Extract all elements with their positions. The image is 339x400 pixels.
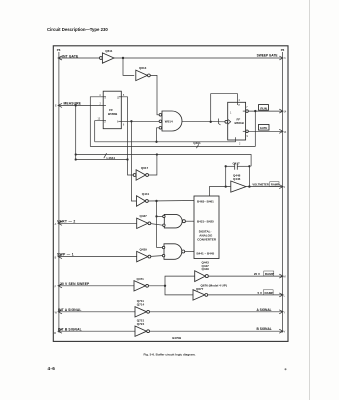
wire W514 bottom input to bus1	[157, 128, 160, 142]
svg-text:INT B SIGNAL: INT B SIGNAL	[58, 327, 82, 331]
svg-text:P6: P6	[281, 48, 285, 52]
gate W514	[159, 111, 182, 131]
junction RUN	[254, 110, 256, 112]
junction NAND A tap	[155, 215, 157, 217]
svg-text:4-6: 4-6	[48, 366, 56, 371]
FF2 output pin circles	[246, 110, 249, 113]
wire NAND A top input tap	[157, 215, 163, 217]
svg-text:Q439: Q439	[140, 248, 148, 252]
svg-text:Q446: Q446	[233, 177, 241, 181]
wire measure branch down	[75, 105, 77, 159]
inverter Q676 Q677	[193, 283, 227, 300]
inverter Q471	[134, 277, 149, 291]
wire B signal out	[150, 330, 283, 332]
amplifier Q448 Q446	[231, 174, 246, 193]
svg-text:B463– B461: B463– B461	[197, 199, 214, 203]
node SWP input	[55, 253, 137, 260]
wire Q437 to NAND A	[151, 224, 163, 226]
wire cap right down to amp output	[248, 166, 250, 186]
junction cap right	[248, 165, 250, 167]
junction clock node	[210, 121, 212, 123]
svg-text:RAMP: RAMP	[271, 183, 279, 187]
wire branch down to Q676	[165, 286, 193, 295]
svg-text:Q724: Q724	[137, 322, 145, 326]
svg-text:RAMP: RAMP	[265, 291, 274, 295]
flip-flop U1 FF B565B	[98, 91, 125, 129]
junction amp output	[248, 185, 250, 187]
svg-text:RUN: RUN	[260, 106, 267, 110]
inverter Q439	[137, 248, 151, 262]
gate NAND A	[163, 214, 186, 228]
svg-text:RAMP: RAMP	[265, 272, 274, 276]
wire FF1 pin4 to bus1	[90, 97, 103, 147]
node INT A SIGNAL input	[55, 308, 135, 315]
page right edge	[309, 0, 311, 400]
svg-text:P6: P6	[57, 48, 61, 52]
node SWEEP GATE output	[257, 54, 287, 61]
label box RUN	[259, 105, 269, 111]
svg-text:B565B: B565B	[108, 112, 118, 116]
node A SIGNAL	[257, 308, 286, 315]
svg-text:M: M	[54, 332, 56, 335]
node VOLTMETER RAMP	[252, 182, 285, 190]
wire bus1	[90, 146, 255, 148]
svg-text:CONVERTER: CONVERTER	[197, 237, 217, 241]
wire DAC output up to integrator input	[209, 187, 230, 196]
wire RUN output	[248, 110, 282, 112]
wire branch up to 20V inverter	[165, 276, 195, 286]
inverter Q617	[133, 166, 148, 180]
svg-text:Q714: Q714	[137, 302, 145, 306]
junction cap left	[225, 165, 227, 167]
wire A signal out	[150, 311, 283, 313]
inverter 20V ramp	[195, 271, 209, 282]
labels Q443 Q447 Q449	[202, 261, 210, 272]
svg-text:Q613: Q613	[139, 66, 147, 70]
svg-text:5 V: 5 V	[258, 291, 263, 295]
wire FF1 pin5 down to Q617	[121, 97, 133, 175]
label box GATE	[259, 125, 270, 131]
wire NAND column feed	[156, 201, 158, 248]
left connector pin line	[58, 52, 60, 333]
node 5 V RAMP	[258, 290, 286, 298]
wire NAND B out to DAC	[185, 251, 194, 253]
inverter Q437	[137, 214, 151, 228]
schematic frame	[53, 46, 288, 342]
wire bus2 to integrator	[76, 155, 251, 167]
svg-text:Q441: Q441	[142, 192, 150, 196]
junction branch	[164, 285, 166, 287]
wire Q471 out to branch	[149, 285, 166, 287]
wire clock loop to FF2 pin4	[211, 94, 238, 122]
wire FF2 bottom pin drop	[235, 140, 237, 142]
node GATE edge pin	[279, 129, 287, 134]
wire FF1 Q down to Q441	[131, 121, 136, 201]
wire NAND B top input tap	[157, 247, 163, 249]
junction measure branch	[75, 104, 77, 106]
svg-text:Fig. 5-6. Buffer circuit logic: Fig. 5-6. Buffer circuit logic diagram.	[144, 352, 196, 356]
svg-text:20 V SEN SWEEP: 20 V SEN SWEEP	[60, 282, 90, 286]
svg-text:B SIGNAL: B SIGNAL	[257, 327, 272, 331]
junction FF1 pin6	[130, 120, 132, 122]
svg-text:C417: C417	[233, 161, 241, 165]
svg-text:Q449: Q449	[202, 267, 210, 271]
wire FF1 pin13 to FF2 bottom pin	[95, 141, 236, 143]
svg-text:VOLTMETER: VOLTMETER	[252, 183, 268, 187]
node 20V SEN SWEEP input	[55, 282, 134, 289]
wire RUN junction down to bus1	[254, 111, 256, 146]
svg-text:B561B: B561B	[235, 121, 245, 125]
svg-text:INT A SIGNAL: INT A SIGNAL	[58, 308, 82, 312]
wire NAND A out to DAC	[185, 220, 194, 222]
junction bus3 left	[75, 158, 77, 160]
node B SIGNAL	[257, 327, 286, 334]
svg-text:A SIGNAL: A SIGNAL	[257, 308, 272, 312]
wire FF1 pin13 to bus2	[95, 121, 104, 142]
wire Q439 to NAND B	[151, 255, 162, 258]
hook mark near FF2 clock	[219, 119, 221, 126]
inverter Q721 Q724	[135, 318, 150, 336]
right connector pin line	[281, 52, 283, 333]
svg-text:SWEEP GATE: SWEEP GATE	[257, 54, 278, 58]
junction Q617 out on bus2	[156, 153, 158, 155]
inverter Q613	[136, 66, 151, 80]
junction bus3 right	[126, 158, 128, 160]
inverter Q441	[137, 192, 150, 206]
node 20 V RAMP	[254, 271, 286, 279]
svg-text:Q676 (Model 4 UP): Q676 (Model 4 UP)	[201, 283, 227, 287]
svg-text:Q611: Q611	[105, 49, 113, 53]
svg-text:Q491: Q491	[193, 141, 201, 145]
svg-text:B470B: B470B	[172, 336, 181, 340]
component L4644 on bus2	[104, 153, 116, 160]
svg-text:Circuit Description—Type 230: Circuit Description—Type 230	[47, 27, 108, 32]
wire Q617 out up to bus2	[149, 155, 157, 176]
node INT GATE input	[58, 54, 100, 60]
wire 20V ramp out	[208, 275, 282, 277]
wire sweep gate line	[114, 57, 282, 59]
box U3 digital-analog converter	[194, 196, 219, 259]
node MEASURE input	[55, 101, 103, 107]
junction J1	[122, 57, 124, 59]
svg-text:VERT — 2: VERT — 2	[57, 219, 76, 223]
svg-text:B421– B425: B421– B425	[197, 220, 214, 224]
gate NAND B	[162, 244, 184, 259]
svg-text:Q471: Q471	[137, 277, 145, 281]
svg-text:Q677: Q677	[196, 287, 204, 291]
svg-text:MEASURE: MEASURE	[64, 101, 82, 105]
wire Q441 out to DAC	[148, 200, 194, 203]
inverter Q711 Q714	[135, 299, 150, 317]
svg-text:M: M	[284, 276, 286, 279]
wire Q613 out down to W514 top input	[150, 75, 159, 114]
wire GATE output	[248, 130, 282, 132]
node INT B SIGNAL input	[54, 327, 135, 335]
svg-text:20 V: 20 V	[254, 272, 260, 276]
junction W514 mid line	[155, 141, 157, 143]
copyright mark	[285, 368, 287, 370]
junction amp input	[225, 185, 227, 187]
capacitor C417	[226, 161, 250, 169]
flip-flop U2 FF B561B	[225, 99, 249, 145]
svg-text:Q617: Q617	[141, 166, 149, 170]
wire FF1 pin6 to W514	[121, 120, 159, 122]
wire 5V ramp out	[208, 294, 283, 296]
svg-text:GATE: GATE	[260, 126, 268, 130]
wire voltmeter ramp out	[246, 186, 282, 188]
wire W514 output to FF2 clock	[182, 120, 226, 123]
inverter Q611	[100, 49, 115, 63]
svg-text:B441 – B445: B441 – B445	[197, 251, 215, 255]
node RUN edge pin	[279, 109, 287, 114]
wire bus3	[76, 159, 128, 161]
junction bus2 left	[75, 153, 77, 155]
wire J1 to Q613	[123, 58, 134, 75]
svg-text:SWP — 1: SWP — 1	[57, 253, 74, 257]
node VERT input	[55, 219, 137, 226]
svg-text:Q437: Q437	[140, 214, 148, 218]
junction Q441 out	[155, 200, 157, 202]
svg-text:W514: W514	[165, 119, 173, 123]
wire cap left down to amp input	[225, 166, 227, 186]
